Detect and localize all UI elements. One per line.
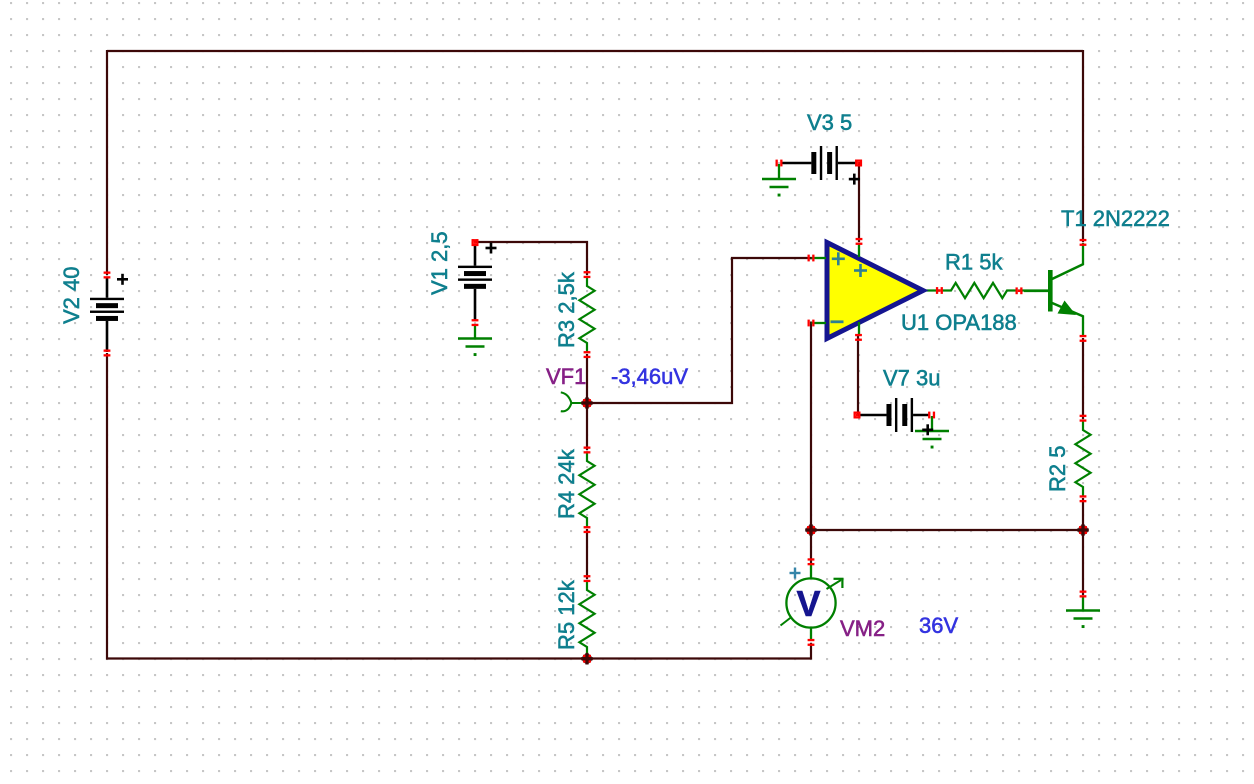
pin	[1016, 287, 1023, 294]
pin	[808, 255, 815, 262]
transistor T1	[1024, 243, 1084, 337]
pin	[584, 526, 591, 533]
pin	[1080, 591, 1087, 598]
battery V1	[458, 244, 492, 321]
pin	[1080, 415, 1087, 422]
wire	[810, 322, 812, 564]
wire	[107, 50, 1083, 52]
wire	[811, 529, 1083, 531]
node R2 junction	[1077, 524, 1089, 536]
pin	[1080, 239, 1087, 246]
pin	[855, 334, 862, 341]
resistor R4	[579, 452, 594, 528]
pin	[855, 160, 862, 167]
V7 plus	[922, 428, 933, 431]
wire	[474, 242, 587, 275]
wire	[588, 258, 812, 403]
svg-text:R5 12k: R5 12k	[554, 579, 579, 650]
op-amp U1	[812, 243, 924, 339]
V3 plus	[849, 178, 860, 181]
node feedback junction	[805, 524, 817, 536]
wire	[923, 289, 940, 291]
wire	[810, 643, 812, 660]
ground	[1066, 596, 1100, 628]
battery V7	[859, 398, 930, 432]
svg-text:U1 OPA188: U1 OPA188	[901, 310, 1017, 335]
battery V3	[781, 146, 857, 180]
svg-text:36V: 36V	[919, 613, 958, 638]
wire	[1082, 338, 1084, 419]
resistor R5	[579, 581, 594, 657]
pin	[856, 238, 863, 245]
pin	[808, 558, 815, 565]
battery V2	[90, 277, 124, 352]
wire	[106, 353, 108, 660]
svg-text:V1 2,5: V1 2,5	[427, 231, 452, 295]
V1 plus	[486, 247, 497, 250]
svg-text:V2 40: V2 40	[59, 267, 84, 325]
pin	[936, 287, 943, 294]
resistor R1	[942, 283, 1017, 298]
svg-text:R3 2,5k: R3 2,5k	[554, 271, 579, 348]
V2 plus	[117, 278, 128, 281]
pin	[584, 575, 591, 582]
svg-text:T1 2N2222: T1 2N2222	[1061, 206, 1170, 231]
node VF1 junction	[581, 397, 593, 409]
svg-text:-3,46uV: -3,46uV	[611, 364, 688, 389]
pin	[928, 412, 935, 419]
svg-text:V7 3u: V7 3u	[883, 366, 941, 391]
svg-text:V: V	[797, 583, 821, 624]
wire	[586, 529, 588, 579]
pin	[472, 239, 479, 246]
pin	[584, 447, 591, 454]
svg-text:R1 5k: R1 5k	[945, 250, 1003, 275]
pin	[1080, 335, 1087, 342]
node bottom junction	[581, 653, 593, 665]
wire	[1082, 498, 1084, 595]
ground	[915, 416, 949, 449]
wire	[586, 354, 588, 404]
pin	[584, 351, 591, 358]
resistor R2	[1075, 421, 1090, 497]
svg-text:VM2: VM2	[840, 616, 885, 641]
voltmeter VM2	[781, 564, 844, 641]
ground	[458, 325, 492, 356]
wire	[857, 336, 859, 416]
wire	[106, 50, 108, 275]
svg-text:R4 24k: R4 24k	[554, 448, 579, 519]
wire	[1018, 289, 1048, 291]
svg-text:VF1: VF1	[546, 364, 586, 389]
pin	[854, 412, 861, 419]
VM2 plus	[790, 572, 801, 574]
ground	[762, 164, 796, 197]
pin	[472, 319, 479, 326]
wire	[106, 657, 811, 659]
pin	[808, 320, 815, 327]
wire	[586, 402, 588, 450]
pin	[1080, 495, 1087, 502]
probe VF1	[561, 392, 585, 411]
pin	[104, 272, 111, 279]
wire	[858, 162, 860, 242]
wire	[1082, 50, 1084, 242]
pin	[776, 160, 783, 167]
resistor R3	[579, 277, 594, 353]
pin	[808, 639, 815, 646]
pin	[584, 271, 591, 278]
svg-text:V3 5: V3 5	[807, 110, 852, 135]
svg-text:R2 5: R2 5	[1045, 446, 1070, 492]
pin	[104, 350, 111, 357]
